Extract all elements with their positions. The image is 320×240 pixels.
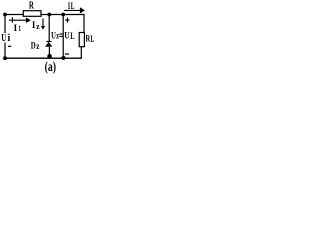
- current arrow I1: [9, 19, 27, 21]
- svg-text:z: z: [36, 41, 39, 51]
- right rail upper: [83, 15, 85, 33]
- svg-text:U: U: [64, 31, 70, 41]
- node dot bottom left: [3, 56, 7, 60]
- wire top left: [5, 14, 23, 16]
- label UL: [64, 31, 74, 41]
- label Ui: [1, 33, 10, 44]
- svg-text:z: z: [56, 32, 59, 42]
- plus sign output: [65, 18, 69, 23]
- equals sign: [59, 34, 63, 37]
- left rail upper segment: [4, 15, 6, 34]
- svg-text:R: R: [29, 0, 35, 12]
- svg-text:z: z: [36, 21, 40, 31]
- plus sign source: [11, 17, 13, 23]
- zener diode triangle: [45, 42, 52, 47]
- label Uz: [51, 31, 59, 41]
- svg-text:L: L: [70, 32, 74, 42]
- svg-text:U: U: [1, 33, 6, 44]
- svg-text:1: 1: [18, 23, 21, 33]
- fat junction blob zener bottom: [47, 54, 52, 59]
- zener branch wire lower: [48, 47, 50, 57]
- svg-text:D: D: [31, 42, 36, 52]
- svg-text:i: i: [8, 33, 11, 44]
- left rail lower segment: [4, 43, 6, 59]
- current arrow IL: [64, 9, 81, 11]
- bottom wire: [5, 57, 82, 59]
- node dot top left: [3, 13, 7, 17]
- node dot bottom indicator: [61, 56, 65, 60]
- right rail lower: [80, 47, 82, 59]
- wire top middle: [41, 14, 63, 16]
- label Iz: [32, 20, 40, 31]
- zener branch wire upper: [48, 15, 50, 42]
- zener diode cathode bar: [46, 40, 51, 42]
- label I1: [14, 23, 21, 33]
- current arrow Iz: [42, 19, 44, 27]
- svg-text:(a): (a): [45, 60, 57, 75]
- node dot top indicator: [61, 13, 65, 17]
- svg-text:I: I: [14, 23, 18, 33]
- svg-text:L: L: [90, 35, 94, 45]
- wire top right: [63, 14, 84, 16]
- minus sign output: [65, 53, 69, 55]
- minus sign source: [8, 45, 11, 47]
- label IL: [68, 2, 75, 12]
- resistor R: [23, 11, 41, 17]
- node dot top zener: [47, 13, 51, 17]
- load resistor RL: [79, 33, 84, 47]
- voltage indicator line: [62, 15, 64, 59]
- label Dz: [31, 41, 40, 52]
- label RL: [86, 34, 95, 44]
